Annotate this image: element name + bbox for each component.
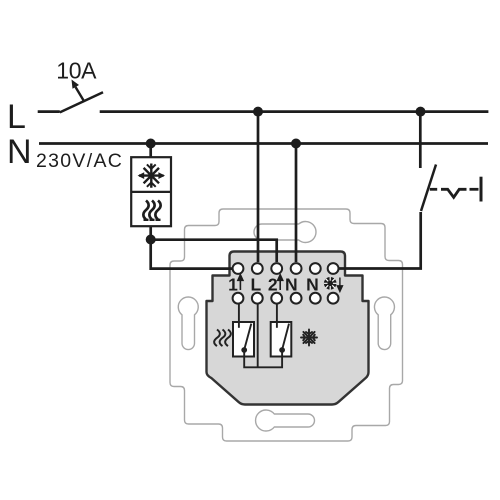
svg-text:10A: 10A — [56, 57, 97, 83]
svg-text:N: N — [285, 275, 298, 295]
svg-text:N: N — [306, 275, 319, 295]
svg-text:L: L — [7, 98, 26, 136]
svg-text:230V/AC: 230V/AC — [36, 150, 123, 172]
svg-text:1: 1 — [228, 275, 238, 295]
svg-text:2: 2 — [268, 275, 278, 295]
svg-text:N: N — [7, 133, 32, 171]
svg-text:L: L — [250, 275, 261, 295]
